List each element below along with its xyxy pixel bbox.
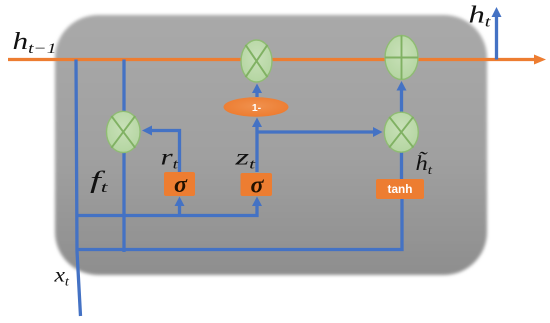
wire: rail 1 branch arrow into reset sigma — [175, 197, 185, 216]
candidate multiply node — [384, 112, 418, 152]
wire: input rail 2 to tanh — [77, 199, 402, 250]
wire: h_t output arrow — [492, 7, 502, 60]
svg-text:xt: xt — [53, 263, 69, 289]
GRU cell body — [55, 15, 487, 275]
wire: h(t-1) branch down to reset multiply — [122, 60, 125, 115]
svg-text:σ: σ — [174, 172, 188, 198]
wire: update branch to candidate multiply — [257, 127, 383, 137]
wire: update sigma output up to one-minus — [252, 118, 262, 173]
wire: h(t-1) to h(t) horizontal orange line — [8, 55, 546, 65]
svg-text:1-: 1- — [252, 102, 262, 114]
wire: candidate multiply up to add — [397, 81, 407, 113]
wire: reset multiply output down to rail 2 — [122, 150, 125, 252]
add node on h line — [385, 36, 418, 80]
svg-text:σ: σ — [251, 173, 265, 199]
wire: input rail 1 with arrow into update sigma — [76, 197, 262, 216]
sigma box (update gate) — [241, 173, 273, 199]
svg-text:ht: ht — [469, 3, 492, 31]
wire: x_t input line — [76, 60, 81, 317]
reset multiply node — [107, 111, 141, 152]
one-minus ellipse — [224, 97, 289, 117]
svg-text:tanh: tanh — [388, 182, 413, 196]
multiply node on h line (1-z gate) — [241, 40, 272, 82]
wire: one-minus output up to multiply on h line — [252, 84, 262, 98]
sigma box (reset gate) — [164, 172, 195, 198]
tanh box — [376, 179, 424, 199]
wire: reset sigma output to reset multiply — [142, 126, 180, 173]
wire: tanh up to candidate multiply — [400, 152, 403, 180]
svg-text:ht−1: ht−1 — [13, 29, 57, 57]
